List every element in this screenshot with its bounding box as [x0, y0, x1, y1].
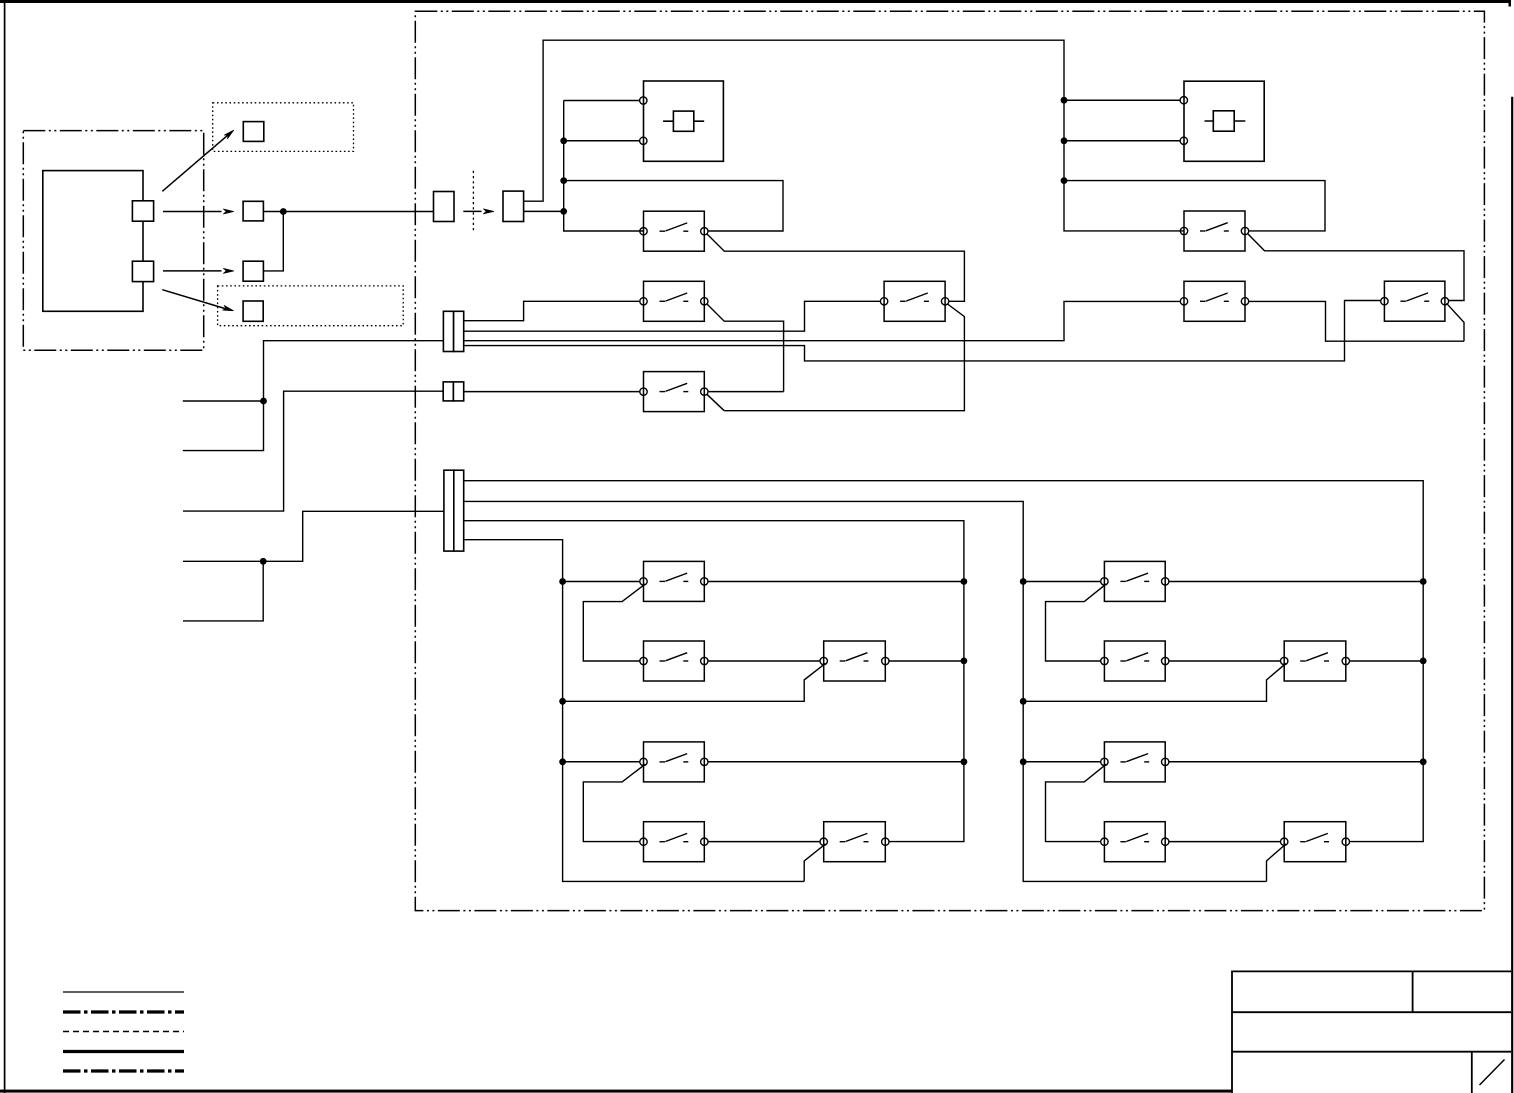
wire switch S2b to supply rail — [889, 660, 964, 662]
switch S4 — [640, 822, 708, 862]
node trunk-1 — [560, 137, 567, 144]
connector X3 housing — [443, 382, 463, 401]
legend dash-dot thick line 2 — [63, 1069, 184, 1072]
connector X2 housing — [443, 311, 463, 351]
switch S1 actuator path — [583, 584, 645, 661]
feed rail U node row1 — [1020, 578, 1027, 585]
bus X4 to right group supply rail — [464, 481, 1423, 582]
relay K6 — [1180, 281, 1248, 321]
switch S2b actuator path — [563, 663, 826, 701]
trunk bus right section — [1064, 100, 1184, 231]
connector X1 housing — [434, 192, 455, 222]
terminal box T2 — [243, 201, 263, 221]
title block outline — [1232, 971, 1511, 1093]
bus X4 to left group feed rail — [464, 540, 563, 582]
wire switch S2 to S2b — [708, 660, 820, 662]
wire switch U3 to supply rail — [1169, 761, 1423, 763]
harness boundary box (dash-dot) — [415, 11, 1484, 910]
switch S4b — [820, 822, 889, 862]
relay K1 actuator path to K3 — [707, 234, 965, 302]
wire switch U2 to U2b — [1169, 660, 1281, 662]
sheet top border — [0, 0, 1511, 7]
motor M1 terminal 2 — [640, 137, 647, 144]
node trunk-3 — [560, 208, 567, 215]
feed rail U node row2 — [1020, 698, 1027, 705]
switch S2 — [640, 641, 708, 681]
wire T2 to X1 connector — [263, 211, 433, 213]
wire relay K4 output — [708, 391, 784, 393]
wire harness net3 to X4 — [183, 511, 444, 621]
wire feed to switch U1 — [1023, 581, 1100, 583]
relay K4 — [640, 372, 708, 412]
switch S2b — [820, 641, 889, 681]
wire switch S3 to supply rail — [708, 761, 964, 763]
wire X2 bus to right section relay K6 — [464, 301, 1180, 340]
supply rail U node row1 — [1420, 578, 1427, 585]
switch U4b — [1281, 822, 1350, 862]
switch S3 — [640, 742, 708, 782]
wire switch U2b to supply rail — [1350, 660, 1424, 662]
wire feed to switch U3 — [1023, 761, 1100, 763]
feed rail S node row3 — [559, 758, 566, 765]
connector X1b housing — [503, 191, 524, 221]
supply rail S node row3 — [961, 758, 968, 765]
relay K3 — [880, 281, 948, 321]
terminal box T3 — [243, 261, 263, 281]
node rtrunk-2 — [1061, 137, 1068, 144]
switch U1 — [1101, 561, 1169, 601]
wire X1b upper feed — [524, 40, 1064, 201]
switch U4b actuator path — [1267, 844, 1287, 882]
motor M1 body — [644, 81, 724, 161]
wire switch S4 to S4b — [708, 841, 820, 843]
wire to motor M1 terminal 1 — [564, 100, 640, 102]
switch U2b actuator path — [1023, 663, 1286, 701]
switch U3 — [1101, 742, 1169, 782]
sheet left border — [4, 0, 6, 1093]
bus X4 to left group supply rail — [464, 521, 964, 582]
legend solid thin line — [63, 991, 184, 993]
relay K4 actuator diagonal — [707, 394, 725, 411]
wire loop node2 to relay K1 output — [564, 181, 783, 231]
connector X4 housing — [444, 470, 464, 551]
feed rail U — [1023, 582, 1266, 882]
wire to motor M2 terminal 1 — [1064, 99, 1180, 101]
switch S1 — [640, 561, 708, 601]
switch U1 actuator path — [1046, 584, 1107, 661]
wire switch S1 to supply rail — [708, 581, 964, 583]
wire loop to relay K5 output — [1064, 181, 1325, 231]
wire harness net1 to X2 — [183, 341, 444, 451]
feed rail S — [563, 582, 805, 882]
wire X2 to relay K2 input — [464, 301, 640, 320]
junction net3 — [260, 558, 267, 565]
wire X2 to relay K3 input — [464, 301, 881, 331]
wire to motor M1 terminal 2 — [564, 140, 640, 142]
arrow X1 to X1b — [463, 209, 494, 214]
wire X2 long bus to relay K7 — [464, 301, 1381, 361]
title block divider row1 — [1412, 971, 1414, 1012]
motor M2 body — [1184, 81, 1264, 161]
terminal box T4 in B2 — [243, 301, 263, 321]
connector pin a on A1 — [132, 201, 153, 221]
sheet bottom border — [0, 1090, 1232, 1093]
switch U2 — [1101, 641, 1169, 681]
relay K2 actuator path down — [707, 304, 784, 392]
supply rail S node row1 — [961, 578, 968, 585]
motor M2 symbol — [1205, 111, 1246, 131]
detail dotted box B2 — [218, 286, 404, 326]
supply rail S — [889, 582, 964, 842]
supply rail S node row2 — [961, 658, 968, 665]
arrow to detail box B2 — [162, 290, 233, 311]
motor M2 terminal 1 — [1180, 97, 1187, 104]
legend solid thick line — [63, 1050, 184, 1053]
trunk bus left section — [564, 101, 644, 232]
relay K1 — [640, 211, 708, 251]
node trunk-2 — [560, 177, 567, 184]
relay K5 actuator path to K7 — [1247, 233, 1464, 300]
legend dash-dot thick line — [63, 1010, 184, 1013]
switch U3 actuator path — [1046, 764, 1107, 841]
motor M1 terminal 1 — [640, 97, 647, 104]
switch S4b actuator path — [804, 844, 825, 882]
node on T2 wire — [280, 208, 287, 215]
wire switch U1 to supply rail — [1169, 581, 1423, 583]
control unit boundary box (dash-dot) — [23, 131, 203, 351]
control unit A1 body — [43, 171, 143, 312]
supply rail U node row2 — [1420, 658, 1427, 665]
relay K2 — [640, 281, 708, 321]
arrow to detail box B1 — [162, 130, 234, 191]
detail dotted box B1 — [213, 103, 354, 152]
bus X4 to right group feed rail — [464, 501, 1024, 581]
connector pin b on A1 — [132, 261, 153, 281]
switch U2b — [1281, 641, 1350, 681]
relay K3 actuator path to K4 line — [724, 304, 964, 411]
wire X1b to trunk node — [524, 210, 564, 212]
relay K6 output path — [1249, 301, 1464, 341]
relay K7 actuator diagonal — [1447, 303, 1465, 341]
title block revision cell — [1471, 1052, 1473, 1093]
title block diagonal slash — [1480, 1060, 1505, 1086]
wire X3 to relay K4 input — [464, 391, 640, 393]
legend dashed thin line — [63, 1031, 184, 1033]
supply rail U — [1350, 582, 1424, 842]
wire arrow pin-a to T2 — [163, 209, 234, 214]
feed rail S node row2 — [559, 698, 566, 705]
relay K7 — [1381, 281, 1449, 321]
node rtrunk-1 — [1061, 97, 1068, 104]
wire arrow pin-b to T3 — [163, 268, 234, 273]
motor M1 symbol — [663, 111, 704, 131]
wire feed to switch S3 — [563, 761, 640, 763]
wire feed to switch S1 — [563, 581, 640, 583]
junction net1 — [260, 398, 267, 405]
switch U4 — [1101, 822, 1169, 862]
relay K5 — [1180, 211, 1248, 251]
feed rail U node row3 — [1020, 758, 1027, 765]
sheet right border — [1511, 97, 1513, 1093]
feed rail S node row1 — [559, 578, 566, 585]
switch S3 actuator path — [583, 764, 645, 841]
wire switch U4 to U4b — [1169, 841, 1281, 843]
supply rail U node row3 — [1420, 758, 1427, 765]
wire stub to net2 — [183, 391, 443, 511]
node rtrunk-3 — [1061, 177, 1068, 184]
wire to motor M2 terminal 2 — [1064, 140, 1180, 142]
separation dotted line — [472, 171, 474, 231]
terminal box T1 in B1 — [243, 122, 263, 142]
motor M2 terminal 2 — [1180, 137, 1187, 144]
wire node down to T3 — [263, 212, 283, 271]
